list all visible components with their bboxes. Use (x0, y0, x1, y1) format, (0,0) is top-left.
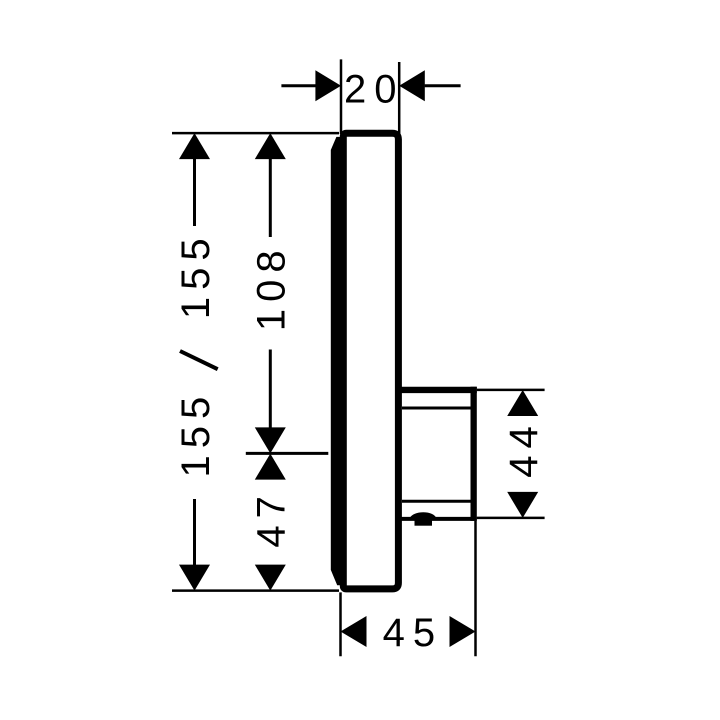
svg-text:20: 20 (344, 68, 405, 112)
dim 108: bottom arrow (255, 427, 286, 453)
dim 47: top arrow (255, 454, 286, 480)
svg-text:155: 155 (174, 390, 218, 478)
svg-text:47: 47 (250, 489, 294, 548)
dim 45: left extension line (339, 592, 342, 656)
dim 20: right arrow (399, 70, 425, 101)
dim 108: upper shaft (269, 158, 272, 237)
svg-text:108: 108 (250, 243, 294, 331)
dim 155/155: top extension line (172, 132, 339, 135)
dim 20: right tail (425, 84, 461, 87)
dim 108: lower shaft (269, 350, 272, 429)
backplate bar (wall flange, left of plate) (331, 137, 346, 585)
box inner top line (402, 407, 471, 410)
svg-text:45: 45 (383, 611, 444, 655)
escutcheon plate (rounded rect, side view) (343, 133, 398, 589)
dim 45: right arrow (450, 616, 476, 647)
dim 20: left extension line (340, 59, 343, 134)
dim 20: left tail (281, 84, 316, 87)
dim 155/155: lower shaft (193, 499, 196, 566)
svg-text:44: 44 (502, 419, 546, 478)
function box (spout housing) (398, 387, 477, 521)
dim 108: top arrow (255, 133, 286, 159)
dim 44: bottom arrow (507, 492, 538, 518)
dim 155/155: bottom extension line (172, 589, 339, 592)
dim 47: bottom arrow (255, 565, 286, 591)
dim 155/155: slash (180, 351, 218, 369)
dim 155/155: bottom arrow (179, 565, 210, 591)
dim 20: right extension line (398, 62, 401, 140)
centerline at 47/108 junction (246, 452, 328, 455)
dim 44: top extension line (477, 389, 545, 392)
dim 20: left arrow (315, 70, 341, 101)
clip bump on box bottom edge (410, 512, 437, 526)
dim 44: top arrow (507, 390, 538, 416)
dim 45: left arrow (341, 616, 367, 647)
dim 45: right extension line (474, 521, 477, 656)
dim 155/155: top arrow (179, 133, 210, 159)
dim 155/155: upper shaft (193, 158, 196, 226)
dim 44: bottom extension line (477, 517, 545, 520)
svg-text:155: 155 (174, 231, 218, 319)
box inner bottom line (402, 500, 471, 503)
